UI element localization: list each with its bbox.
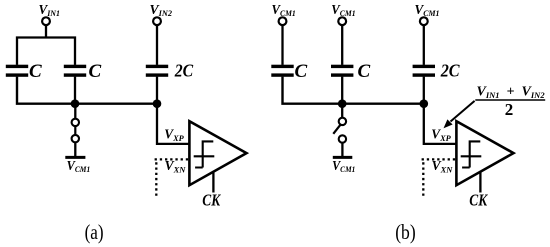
node junction XP (b): [420, 99, 429, 108]
op-amp comparator U1 (a): [189, 121, 246, 185]
svg-text:VXP: VXP: [431, 127, 451, 143]
formula fraction bar: [475, 99, 545, 101]
svg-text:C: C: [358, 61, 371, 82]
node junction XP (a): [153, 99, 162, 108]
capacitor C4 (b): [271, 65, 293, 77]
hysteresis symbol U1: [194, 140, 215, 167]
wire bottom rail (a): [17, 77, 157, 104]
svg-text:CK: CK: [202, 191, 221, 210]
svg-text:VCM1: VCM1: [415, 3, 440, 18]
wire CK (b): [479, 172, 481, 193]
capacitor C2 (a): [64, 65, 86, 77]
svg-text:(a): (a): [85, 220, 104, 244]
wire XP node to comparator (a): [157, 104, 189, 144]
wire VIN2 to C3: [156, 25, 158, 65]
svg-text:VIN2: VIN2: [150, 3, 173, 18]
switch S2 open (b): [333, 118, 346, 143]
terminal bar VCM1 (a): [65, 156, 85, 159]
node junction X (a): [71, 99, 80, 108]
arrow formula to VXP node: [444, 101, 475, 128]
svg-text:VXP: VXP: [164, 127, 184, 143]
switch S1 closed (a): [72, 119, 79, 143]
wire C6 bottom to rail: [423, 77, 425, 104]
terminal bar VCM1 (b): [333, 156, 353, 159]
capacitor C6 2C (b): [413, 65, 435, 77]
wire C2 bottom to rail: [74, 77, 76, 104]
svg-text:2C: 2C: [174, 61, 194, 81]
terminal VCM1 b1: [279, 17, 287, 25]
svg-text:2C: 2C: [440, 61, 460, 81]
svg-text:(b): (b): [395, 220, 416, 244]
wire XP node to comparator (b): [424, 104, 456, 144]
terminal VIN1: [42, 17, 50, 25]
wire VIN1 stub: [45, 25, 47, 38]
svg-text:VIN1+VIN2: VIN1+VIN2: [477, 85, 546, 101]
wire VXN dotted (a): [155, 159, 189, 198]
capacitor C1 (a): [6, 65, 28, 77]
op-amp comparator U2 (b): [456, 121, 513, 185]
svg-text:VCM1: VCM1: [332, 159, 355, 174]
wire CK (a): [212, 172, 214, 193]
wire C3 bottom to rail: [156, 77, 158, 104]
node junction Y (b): [338, 99, 347, 108]
wire switch S1 to VCM1 terminal: [74, 143, 76, 157]
terminal VIN2: [153, 17, 161, 25]
svg-text:C: C: [295, 61, 308, 82]
wire bottom rail (b): [283, 77, 424, 104]
wire switch S2 to VCM1 terminal: [341, 143, 343, 156]
svg-text:VCM1: VCM1: [272, 3, 296, 18]
wire top rail (a): [17, 38, 75, 65]
terminal VCM1 b2: [338, 17, 346, 25]
wire junction to switch S2: [341, 104, 343, 118]
svg-text:2: 2: [505, 100, 514, 119]
svg-text:VCM1: VCM1: [67, 159, 91, 174]
svg-text:C: C: [89, 61, 102, 82]
hysteresis symbol U2: [461, 140, 482, 167]
svg-text:VCM1: VCM1: [331, 3, 355, 18]
capacitor C3 2C (a): [146, 65, 168, 77]
svg-text:CK: CK: [469, 191, 488, 210]
wire VCM1 b3 to C6: [423, 25, 425, 65]
wire junction to switch S1: [74, 104, 76, 119]
capacitor C5 (b): [331, 65, 353, 77]
wire VXN dotted (b): [422, 159, 456, 198]
wire C5 bottom to rail: [341, 77, 343, 104]
terminal VCM1 b3: [420, 17, 428, 25]
svg-text:C: C: [29, 61, 42, 82]
svg-text:VIN1: VIN1: [39, 3, 61, 18]
wire VCM1 b1 to C4: [281, 25, 283, 65]
wire VCM1 b2 to C5: [341, 25, 343, 65]
